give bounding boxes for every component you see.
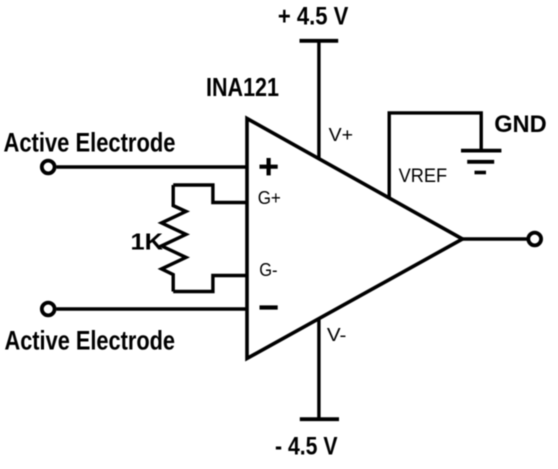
svg-text:1K: 1K bbox=[131, 229, 164, 255]
wire VREF to ground bbox=[389, 113, 481, 198]
label Active Electrode (top) bbox=[4, 128, 176, 158]
wire output bbox=[463, 237, 529, 240]
plus input symbol bbox=[260, 158, 278, 175]
svg-text:Active Electrode: Active Electrode bbox=[5, 326, 176, 356]
label V+ bbox=[329, 124, 354, 145]
ground symbol bbox=[461, 151, 501, 173]
label Active Electrode (bottom) bbox=[5, 326, 176, 356]
label +4.5V supply bbox=[278, 3, 349, 31]
power symbol +4.5V bar bbox=[300, 39, 339, 43]
label 1K bbox=[131, 229, 164, 255]
label INA121 bbox=[206, 72, 279, 102]
label V- bbox=[327, 324, 347, 345]
label G- bbox=[259, 259, 277, 280]
svg-text:G+: G+ bbox=[258, 187, 281, 208]
minus input symbol bbox=[260, 305, 278, 309]
svg-text:+ 4.5 V: + 4.5 V bbox=[278, 3, 349, 31]
svg-text:Active Electrode: Active Electrode bbox=[4, 128, 176, 158]
label VREF bbox=[399, 165, 448, 187]
svg-text:INA121: INA121 bbox=[206, 72, 279, 102]
wire gain pin G- bbox=[173, 276, 247, 292]
label -4.5V supply bbox=[275, 433, 338, 461]
op-amp U1 INA121 triangle body bbox=[247, 119, 463, 359]
wire gain pin G+ bbox=[173, 185, 247, 203]
svg-text:VREF: VREF bbox=[399, 165, 448, 187]
svg-text:G-: G- bbox=[259, 259, 277, 280]
label G+ bbox=[258, 187, 281, 208]
wire V+ supply stem bbox=[317, 41, 320, 159]
resistor R1 1K zigzag bbox=[162, 185, 187, 292]
power symbol -4.5V bar bbox=[300, 417, 339, 421]
svg-text:GND: GND bbox=[494, 111, 547, 138]
svg-text:V-: V- bbox=[327, 324, 347, 345]
label GND bbox=[494, 111, 547, 138]
wire V- supply stem bbox=[317, 319, 320, 419]
terminal output circle bbox=[528, 233, 541, 246]
terminal bottom electrode circle bbox=[42, 303, 55, 316]
terminal top electrode circle bbox=[42, 161, 55, 174]
wire noninverting input bbox=[57, 165, 248, 168]
svg-text:- 4.5 V: - 4.5 V bbox=[275, 433, 338, 461]
wire inverting input bbox=[57, 307, 248, 310]
svg-text:V+: V+ bbox=[329, 124, 354, 145]
